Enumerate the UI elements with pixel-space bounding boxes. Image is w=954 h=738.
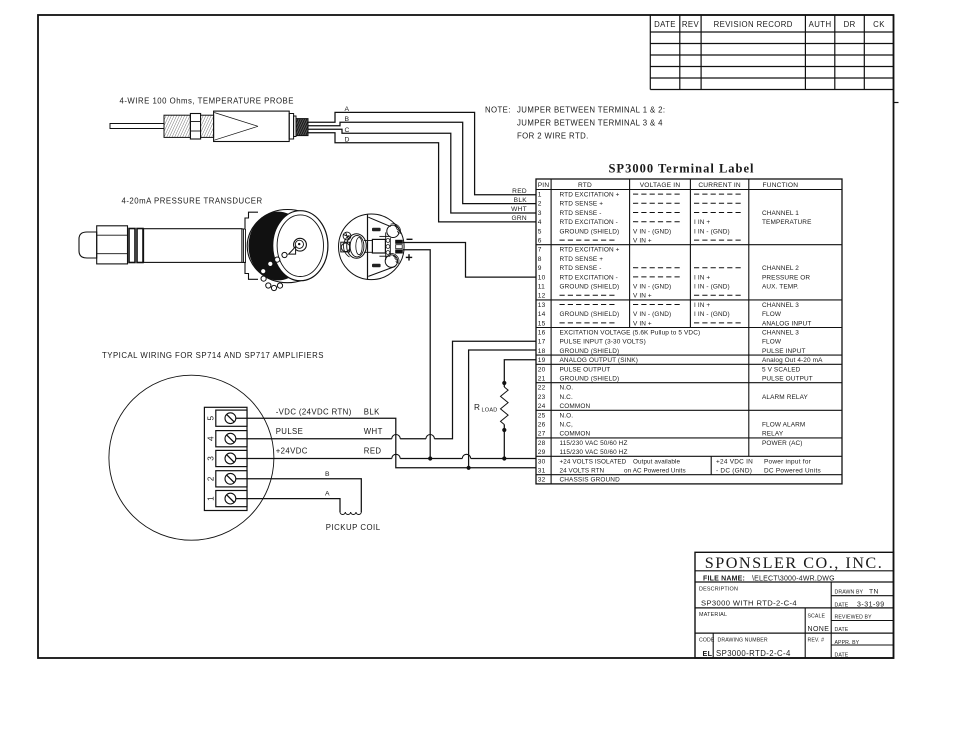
svg-text:CHANNEL 3: CHANNEL 3: [762, 330, 799, 337]
svg-text:JUMPER BETWEEN TERMINAL 3 & 4: JUMPER BETWEEN TERMINAL 3 & 4: [517, 119, 663, 128]
svg-text:FLOW ALARM: FLOW ALARM: [762, 422, 805, 429]
svg-text:POWER (AC): POWER (AC): [762, 440, 803, 447]
svg-text:DRAWN BY: DRAWN BY: [835, 590, 864, 596]
svg-text:24: 24: [538, 403, 546, 410]
svg-text:12: 12: [538, 293, 546, 300]
svg-text:I IN - (GND): I IN - (GND): [694, 311, 730, 318]
svg-text:3: 3: [206, 456, 215, 461]
svg-text:I IN +: I IN +: [694, 302, 710, 309]
svg-text:REVISION RECORD: REVISION RECORD: [714, 20, 793, 29]
svg-text:5: 5: [538, 228, 542, 235]
svg-text:on AC Powered Units: on AC Powered Units: [624, 468, 686, 475]
svg-text:C: C: [345, 127, 350, 134]
svg-text:GROUND (SHIELD): GROUND (SHIELD): [560, 376, 620, 383]
svg-text:5: 5: [206, 415, 215, 420]
svg-text:FOR 2 WIRE RTD.: FOR 2 WIRE RTD.: [517, 132, 589, 141]
svg-text:RTD EXCITATION -: RTD EXCITATION -: [560, 274, 618, 281]
svg-text:A: A: [325, 491, 330, 498]
svg-text:V IN +: V IN +: [633, 320, 652, 327]
svg-text:RTD EXCITATION -: RTD EXCITATION -: [560, 219, 618, 226]
svg-text:RTD SENSE -: RTD SENSE -: [560, 265, 602, 272]
svg-text:DATE: DATE: [835, 627, 849, 633]
svg-text:22: 22: [538, 385, 546, 392]
svg-text:115/230 VAC 50/60 HZ: 115/230 VAC 50/60 HZ: [560, 449, 628, 456]
svg-text:\ELECT\3000-4WR.DWG: \ELECT\3000-4WR.DWG: [752, 576, 835, 583]
svg-text:SP3000 WITH RTD-2-C-4: SP3000 WITH RTD-2-C-4: [701, 599, 797, 608]
svg-text:MATERIAL: MATERIAL: [699, 612, 727, 618]
svg-text:+24 VDC IN: +24 VDC IN: [716, 458, 753, 465]
svg-text:Output available: Output available: [633, 458, 681, 465]
svg-text:GROUND (SHIELD): GROUND (SHIELD): [560, 348, 620, 355]
svg-text:LOAD: LOAD: [482, 408, 498, 414]
svg-text:COMMON: COMMON: [560, 431, 591, 438]
svg-text:5 V SCALED: 5 V SCALED: [762, 366, 801, 373]
svg-text:28: 28: [538, 440, 546, 447]
svg-text:N.O.: N.O.: [560, 412, 574, 419]
svg-text:32: 32: [538, 477, 546, 484]
svg-text:FLOW: FLOW: [762, 311, 782, 318]
svg-text:31: 31: [538, 468, 546, 475]
svg-text:20: 20: [538, 366, 546, 373]
svg-text:4-20mA PRESSURE TRANSDUCER: 4-20mA PRESSURE TRANSDUCER: [122, 197, 263, 206]
svg-text:RELAY: RELAY: [762, 431, 784, 438]
svg-text:JUMPER BETWEEN TERMINAL 1 & 2:: JUMPER BETWEEN TERMINAL 1 & 2:: [517, 106, 665, 115]
svg-text:N.C.: N.C.: [560, 394, 573, 401]
svg-text:DATE: DATE: [835, 602, 849, 608]
svg-text:VOLTAGE IN: VOLTAGE IN: [640, 182, 681, 189]
svg-text:A: A: [345, 106, 350, 113]
svg-text:21: 21: [538, 376, 546, 383]
svg-text:D: D: [345, 137, 350, 144]
svg-text:N.C,: N.C,: [560, 422, 573, 429]
svg-text:RTD EXCITATION +: RTD EXCITATION +: [560, 192, 620, 199]
svg-text:-VDC (24VDC RTN): -VDC (24VDC RTN): [276, 408, 352, 417]
svg-text:23: 23: [538, 394, 546, 401]
svg-text:REVIEWED BY: REVIEWED BY: [835, 615, 873, 621]
svg-text:+24 VOLTS ISOLATED: +24 VOLTS ISOLATED: [560, 458, 627, 465]
svg-text:N.O.: N.O.: [560, 385, 574, 392]
svg-text:RED: RED: [512, 188, 527, 195]
svg-text:GROUND (SHIELD): GROUND (SHIELD): [560, 228, 620, 235]
svg-text:2: 2: [538, 201, 542, 208]
svg-text:19: 19: [538, 357, 546, 364]
svg-text:3: 3: [538, 210, 542, 217]
svg-text:4: 4: [538, 219, 542, 226]
svg-text:PIN: PIN: [538, 182, 550, 189]
svg-text:10: 10: [538, 274, 546, 281]
svg-text:27: 27: [538, 431, 546, 438]
svg-text:CODE: CODE: [699, 637, 715, 643]
svg-text:2: 2: [206, 476, 215, 481]
svg-text:PULSE OUTPUT: PULSE OUTPUT: [560, 366, 611, 373]
svg-text:6: 6: [538, 238, 542, 245]
svg-text:REV. #: REV. #: [808, 637, 825, 643]
svg-text:17: 17: [538, 339, 546, 346]
svg-text:RED: RED: [364, 447, 382, 456]
svg-text:RTD SENSE +: RTD SENSE +: [560, 201, 604, 208]
svg-text:DC Powered Units: DC Powered Units: [764, 468, 821, 475]
svg-text:16: 16: [538, 330, 546, 337]
svg-text:COMMON: COMMON: [560, 403, 591, 410]
svg-text:DATE: DATE: [654, 20, 676, 29]
svg-text:GRN: GRN: [511, 215, 527, 222]
svg-text:+24VDC: +24VDC: [276, 447, 308, 456]
svg-text:TEMPERATURE: TEMPERATURE: [762, 219, 812, 226]
svg-text:GROUND (SHIELD): GROUND (SHIELD): [560, 311, 620, 318]
svg-text:DESCRIPTION: DESCRIPTION: [699, 587, 738, 593]
svg-text:I IN - (GND): I IN - (GND): [694, 228, 730, 235]
svg-text:14: 14: [538, 311, 546, 318]
svg-text:EXCITATION VOLTAGE (5.6K Pul: EXCITATION VOLTAGE (5.6K Pullup to 5 VDC…: [560, 330, 701, 337]
svg-text:NONE: NONE: [808, 626, 830, 633]
svg-text:REV: REV: [682, 20, 700, 29]
svg-text:4-WIRE 100 Ohms, TEMPERATURE P: 4-WIRE 100 Ohms, TEMPERATURE PROBE: [120, 96, 294, 105]
svg-text:8: 8: [538, 256, 542, 263]
svg-text:CURRENT IN: CURRENT IN: [698, 182, 741, 189]
svg-text:CHANNEL 1: CHANNEL 1: [762, 210, 799, 217]
svg-text:PICKUP COIL: PICKUP COIL: [326, 523, 381, 532]
svg-text:RTD: RTD: [578, 182, 592, 189]
svg-text:PULSE INPUT: PULSE INPUT: [762, 348, 806, 355]
svg-text:1: 1: [206, 496, 215, 501]
svg-text:DRAWING NUMBER: DRAWING NUMBER: [718, 637, 768, 643]
svg-text:Power input for: Power input for: [764, 458, 812, 465]
svg-text:TYPICAL WIRING FOR SP714 AND S: TYPICAL WIRING FOR SP714 AND SP717 AMPLI…: [102, 351, 324, 360]
svg-text:CHANNEL 3: CHANNEL 3: [762, 302, 799, 309]
svg-text:30: 30: [538, 458, 546, 465]
svg-text:I IN +: I IN +: [694, 219, 710, 226]
svg-text:18: 18: [538, 348, 546, 355]
svg-text:I IN +: I IN +: [694, 274, 710, 281]
svg-text:V IN +: V IN +: [633, 293, 652, 300]
svg-text:SP3000-RTD-2-C-4: SP3000-RTD-2-C-4: [716, 649, 791, 658]
svg-text:PRESSURE OR: PRESSURE OR: [762, 274, 810, 281]
svg-text:V IN - (GND): V IN - (GND): [633, 228, 671, 235]
svg-text:R: R: [474, 403, 480, 412]
svg-text:EL: EL: [703, 649, 713, 658]
svg-text:FILE NAME:: FILE NAME:: [703, 576, 745, 583]
svg-text:RTD SENSE -: RTD SENSE -: [560, 210, 602, 217]
svg-text:DATE: DATE: [835, 653, 849, 659]
svg-text:PULSE: PULSE: [276, 427, 304, 436]
svg-text:4: 4: [206, 436, 215, 441]
svg-text:ANALOG OUTPUT (SINK): ANALOG OUTPUT (SINK): [560, 357, 638, 364]
svg-text:V IN - (GND): V IN - (GND): [633, 284, 671, 291]
svg-text:V IN +: V IN +: [633, 238, 652, 245]
svg-text:RTD EXCITATION +: RTD EXCITATION +: [560, 247, 620, 254]
svg-text:NOTE:: NOTE:: [485, 106, 511, 115]
svg-text:DR: DR: [844, 20, 856, 29]
svg-text:SCALE: SCALE: [808, 614, 826, 620]
svg-text:24 VOLTS RTN: 24 VOLTS RTN: [560, 468, 605, 475]
svg-text:ANALOG INPUT: ANALOG INPUT: [762, 320, 811, 327]
svg-text:Analog Out 4-20 mA: Analog Out 4-20 mA: [762, 357, 823, 364]
svg-text:7: 7: [538, 247, 542, 254]
svg-text:I IN - (GND): I IN - (GND): [694, 284, 730, 291]
svg-text:B: B: [345, 116, 350, 123]
svg-text:1: 1: [538, 192, 542, 199]
svg-text:AUTH: AUTH: [809, 20, 832, 29]
svg-text:FUNCTION: FUNCTION: [763, 182, 799, 189]
svg-text:26: 26: [538, 422, 546, 429]
svg-text:- DC (GND): - DC (GND): [716, 468, 752, 475]
svg-text:BLK: BLK: [514, 197, 528, 204]
svg-text:CK: CK: [873, 20, 885, 29]
svg-text:11: 11: [538, 284, 545, 291]
svg-text:RTD SENSE +: RTD SENSE +: [560, 256, 604, 263]
svg-text:SP3000 Terminal Label: SP3000 Terminal Label: [608, 162, 754, 176]
svg-text:APPR. BY: APPR. BY: [835, 640, 860, 646]
svg-text:BLK: BLK: [364, 408, 380, 417]
svg-text:PULSE OUTPUT: PULSE OUTPUT: [762, 376, 813, 383]
svg-text:AUX. TEMP.: AUX. TEMP.: [762, 284, 799, 291]
svg-text:WHT: WHT: [364, 427, 383, 436]
svg-text:15: 15: [538, 320, 546, 327]
svg-text:PULSE INPUT (3-30 VOLTS): PULSE INPUT (3-30 VOLTS): [560, 339, 646, 346]
svg-text:TN: TN: [869, 589, 879, 596]
svg-text:WHT: WHT: [511, 206, 527, 213]
svg-text:115/230 VAC 50/60 HZ: 115/230 VAC 50/60 HZ: [560, 440, 628, 447]
svg-text:CHANNEL 2: CHANNEL 2: [762, 265, 799, 272]
svg-text:B: B: [325, 471, 330, 478]
svg-text:SPONSLER CO., INC.: SPONSLER CO., INC.: [705, 554, 884, 572]
svg-text:V IN - (GND): V IN - (GND): [633, 311, 671, 318]
svg-text:13: 13: [538, 302, 546, 309]
svg-text:9: 9: [538, 265, 542, 272]
svg-text:29: 29: [538, 449, 546, 456]
svg-text:GROUND (SHIELD): GROUND (SHIELD): [560, 284, 620, 291]
svg-text:ALARM RELAY: ALARM RELAY: [762, 394, 809, 401]
svg-text:CHASSIS GROUND: CHASSIS GROUND: [560, 477, 621, 484]
svg-text:FLOW: FLOW: [762, 339, 782, 346]
svg-text:25: 25: [538, 412, 546, 419]
svg-text:3-31-99: 3-31-99: [857, 601, 885, 608]
